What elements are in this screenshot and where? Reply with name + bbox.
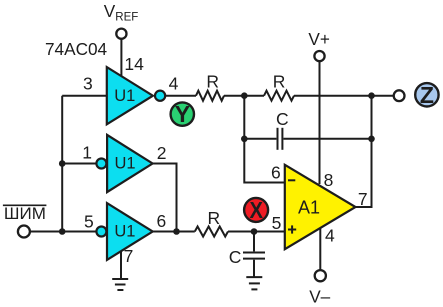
svg-text:R: R <box>208 208 221 228</box>
svg-text:3: 3 <box>83 73 93 93</box>
svg-text:C: C <box>229 247 242 267</box>
svg-text:4: 4 <box>325 226 335 246</box>
svg-text:U1: U1 <box>114 223 135 241</box>
svg-text:74AC04: 74AC04 <box>45 39 108 59</box>
svg-text:1: 1 <box>82 143 92 163</box>
svg-text:V: V <box>104 1 116 21</box>
svg-text:C: C <box>276 109 289 129</box>
svg-text:14: 14 <box>124 54 144 74</box>
svg-text:REF: REF <box>115 12 138 24</box>
svg-text:8: 8 <box>324 170 334 190</box>
svg-text:ШИМ: ШИМ <box>4 204 46 223</box>
svg-text:R: R <box>273 72 286 92</box>
svg-text:7: 7 <box>124 246 134 266</box>
svg-text:5: 5 <box>84 211 94 231</box>
svg-text:5: 5 <box>272 213 282 233</box>
svg-text:U1: U1 <box>114 87 135 105</box>
svg-text:V–: V– <box>309 286 330 306</box>
svg-text:6: 6 <box>157 211 167 231</box>
svg-text:Z: Z <box>420 82 434 108</box>
svg-text:A1: A1 <box>298 198 320 218</box>
svg-text:Y: Y <box>175 101 190 127</box>
svg-text:7: 7 <box>358 189 368 209</box>
svg-text:6: 6 <box>271 163 281 183</box>
svg-text:X: X <box>249 197 263 224</box>
svg-text:V+: V+ <box>308 29 330 49</box>
svg-text:2: 2 <box>157 143 167 163</box>
svg-text:U1: U1 <box>115 155 136 173</box>
svg-text:4: 4 <box>169 73 179 93</box>
svg-text:R: R <box>206 72 219 92</box>
